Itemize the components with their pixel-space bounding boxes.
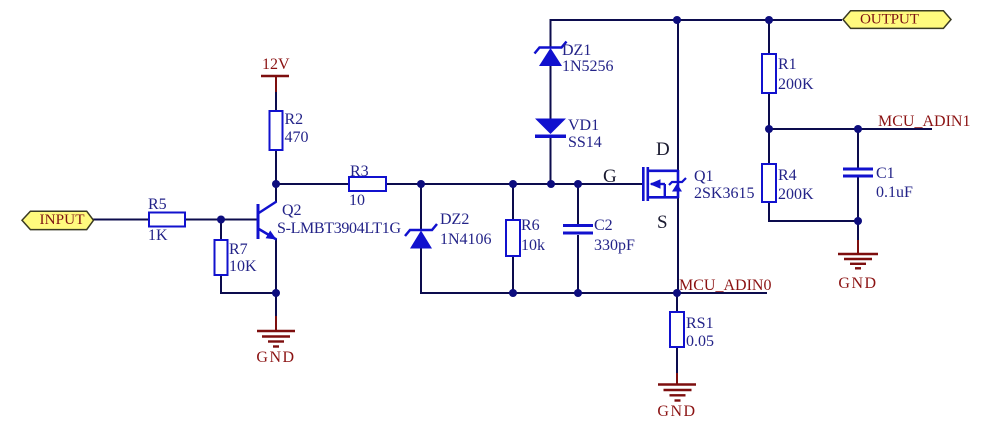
wire RS1 top pin [676,293,678,312]
svg-text:DZ2: DZ2 [440,211,469,228]
wire R6 bottom pin [512,256,514,293]
svg-text:200K: 200K [778,76,814,93]
junction node C2 / bottom rail [574,289,582,297]
svg-text:R3: R3 [350,163,369,180]
svg-text:RS1: RS1 [686,315,714,332]
svg-text:10: 10 [349,192,365,209]
port INPUT [22,211,94,230]
zener diode DZ2 [405,211,492,249]
wire R7 bottom pin [220,275,222,294]
wire R4 top pin [768,129,770,164]
wire top rail [550,19,843,21]
diode VD1 [535,117,602,151]
junction node C1 bottom / right rail [854,217,862,225]
svg-text:Q2: Q2 [282,202,302,219]
svg-text:0.1uF: 0.1uF [876,184,913,201]
svg-text:R2: R2 [285,111,304,128]
junction node C1 / ADIN1 rail [854,125,862,133]
svg-text:R1: R1 [778,56,797,73]
wire R7 to emitter rail [221,292,276,294]
svg-text:12V: 12V [262,56,290,73]
wire Q2 collector pin [275,184,277,202]
wire Q1 source down [677,197,679,293]
ground at Q2 emitter [256,316,295,366]
svg-text:R6: R6 [521,217,540,234]
svg-text:S-LMBT3904LT1G: S-LMBT3904LT1G [277,220,401,237]
wire R5 to Q2 base [185,219,258,221]
resistor R6 [506,217,545,256]
capacitor C1 [843,165,913,201]
svg-text:MCU_ADIN1: MCU_ADIN1 [878,113,970,130]
svg-text:330pF: 330pF [594,237,635,254]
wire R2 to collector junction [275,150,277,185]
power port 12V [261,56,290,92]
svg-text:VD1: VD1 [568,117,599,134]
svg-text:10K: 10K [229,258,257,275]
resistor R7 [215,240,258,275]
svg-text:2SK3615: 2SK3615 [694,185,754,202]
svg-text:200K: 200K [778,186,814,203]
wire R6 top pin [512,184,514,220]
junction node C2 / gate rail [574,180,582,188]
svg-text:0.05: 0.05 [686,333,714,350]
wire VD1 to gate rail [550,137,552,185]
wire C2 top pin [577,184,579,224]
resistor R3 [349,163,386,209]
junction node R2-R3-collector [272,180,280,188]
wire DZ1 to VD1 [550,65,552,120]
wire DZ1 top pin [550,19,552,47]
wire Q1 drain [677,20,679,171]
wire C1 junction to ground [857,221,859,242]
wire gate rail right of R3 [386,183,644,185]
svg-text:1K: 1K [148,227,168,244]
resistor R4 [762,164,814,203]
wire bottom right rail [768,220,858,222]
wire DZ2 bottom pin [420,248,422,294]
port OUTPUT [843,11,951,29]
junction node emitter / bottom rail [272,289,280,297]
wire Q2 emitter down [275,239,277,293]
wire R7 top pin [220,220,222,241]
junction node source-RS1 / ADIN0 rail [673,289,681,297]
svg-text:R5: R5 [148,196,167,213]
wire C2 bottom pin [577,235,579,293]
svg-text:R7: R7 [229,241,248,258]
wire 12V to R2 [275,90,277,111]
svg-text:Q1: Q1 [694,168,714,185]
svg-text:GND: GND [657,403,696,420]
resistor R5 [148,196,185,244]
junction node R6 / gate rail [509,180,517,188]
svg-text:INPUT: INPUT [40,211,86,228]
ground at C1 / R4 [838,240,878,292]
capacitor C2 [563,217,635,254]
wire R1 to ADIN1 rail [768,93,770,129]
svg-text:GND: GND [256,349,295,366]
svg-text:470: 470 [285,129,309,146]
svg-text:D: D [656,139,670,160]
wire R1 top pin [768,20,770,54]
svg-text:1N5256: 1N5256 [562,58,614,75]
svg-text:SS14: SS14 [568,134,602,151]
svg-text:C2: C2 [594,217,613,234]
wire C1 top pin [857,129,859,168]
svg-text:1N4106: 1N4106 [440,231,492,248]
svg-text:MCU_ADIN0: MCU_ADIN0 [679,277,771,294]
resistor R2 [270,111,309,150]
wire gate rail left of R3 [276,183,349,185]
wire emitter junction to GND [275,293,277,318]
svg-text:G: G [603,166,617,187]
svg-text:S: S [657,212,668,233]
wire C1 bottom pin [857,177,859,221]
svg-text:10k: 10k [521,237,545,254]
junction node at R1 / top rail [765,16,773,24]
transistor Q2 [258,202,401,240]
wire RS1 to GND [676,347,678,375]
resistor RS1 [670,312,714,350]
ground at RS1 [657,373,696,420]
junction node at drain / top rail [673,16,681,24]
svg-text:OUTPUT: OUTPUT [860,11,920,28]
wire INPUT to R5 [93,219,149,221]
svg-text:GND: GND [838,275,877,292]
junction node DZ2 / gate rail [417,180,425,188]
wire MCU_ADIN0 rail [420,292,767,294]
junction node R4 / ADIN1 rail [765,125,773,133]
junction node DZ1 / gate rail [547,180,555,188]
svg-text:R4: R4 [778,167,797,184]
resistor R1 [762,54,814,93]
wire DZ2 top pin [420,184,422,229]
wire MCU_ADIN1 rail [769,128,932,130]
zener diode DZ1 [535,42,614,76]
svg-text:DZ1: DZ1 [562,42,591,59]
junction node R6 / bottom rail [509,289,517,297]
svg-text:C1: C1 [876,165,895,182]
junction node R7 / input wire [217,216,225,224]
wire R4 bottom pin [768,202,770,222]
mosfet Q1 [642,167,754,202]
